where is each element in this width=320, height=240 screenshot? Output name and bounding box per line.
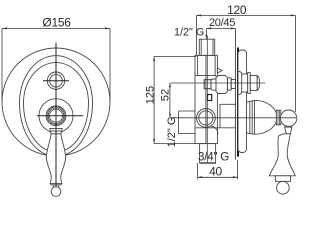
svg-text:52: 52 <box>159 89 171 101</box>
svg-text:1/2" G: 1/2" G <box>174 26 204 38</box>
svg-text:Ø156: Ø156 <box>42 16 71 30</box>
svg-text:120: 120 <box>227 3 247 17</box>
svg-text:40: 40 <box>209 165 222 179</box>
svg-text:1/2" G: 1/2" G <box>166 117 178 148</box>
svg-text:125: 125 <box>144 86 156 104</box>
svg-text:3/4" G: 3/4" G <box>198 151 229 163</box>
svg-text:20/45: 20/45 <box>209 17 235 29</box>
